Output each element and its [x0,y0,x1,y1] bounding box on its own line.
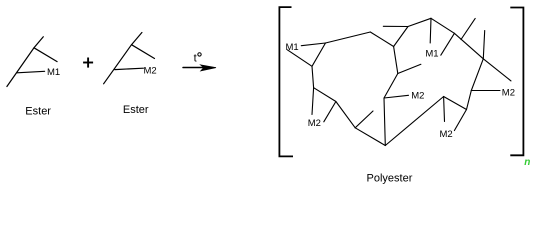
svg-text:Polyester: Polyester [367,173,413,185]
stub J1 down to M2 left [312,88,314,115]
bond Vmid-V5 [394,47,398,74]
bond below M1left to V2 [287,50,312,67]
svg-text:t: t [194,52,197,64]
bond Vb1-J2 [336,102,355,128]
bond V4-V5 [394,27,408,47]
stub into V4 [383,25,408,27]
bond Vb2-J3 vertical [384,98,385,146]
bond J2-J1 [314,88,336,102]
bond V1-V3 top edge [326,32,371,43]
arrow shaft [183,67,204,69]
bond V8-Vg [471,59,483,91]
stub above V8 [483,31,484,59]
stub V7 up right [461,18,475,39]
svg-text:Ester: Ester [123,104,149,116]
left bracket [279,7,293,156]
bond Vc-Vb2 long [385,97,443,146]
ester 2 main chain [104,33,142,84]
ester 1 main chain [7,37,43,87]
svg-text:M1: M1 [425,48,438,59]
svg-text:M2: M2 [440,129,453,140]
right bracket [510,8,523,156]
bond V7-V8 [454,33,483,59]
ester 1 branch to B [34,48,57,62]
svg-text:Ester: Ester [25,106,51,118]
bond Vg-Vh [467,91,472,110]
svg-text:M2: M2 [308,118,321,129]
bond J2 to M2 left [324,102,336,122]
bond M1center to V7 [441,33,455,55]
bond J3-Vmid [384,74,398,99]
bond Vc-Vh [444,97,467,110]
svg-text:M1: M1 [286,42,299,53]
svg-text:M2: M2 [144,65,157,76]
stub V8 to M2 right top [483,59,511,81]
arrow head [201,65,216,71]
stub Vc down to M2 bottom [443,97,446,122]
bond J1-V2 [312,66,314,87]
ester 1 bond to M1 [17,71,45,73]
ester 2 branch [132,45,155,59]
stub Vb1 up right [355,111,373,128]
stub Vmid up right [398,64,421,73]
bond Vb2-Vb1 [355,128,385,146]
bond J3 to M2 center [384,95,409,98]
bond Vh down to M2 bottom [454,110,466,131]
svg-text:M1: M1 [47,67,60,78]
svg-text:M2: M2 [411,90,424,101]
bond Vg to M2 right [471,90,500,92]
bond V3-V5 [370,32,393,47]
bond V6-V7 [431,18,454,33]
bond V4-V6 [408,18,431,26]
plus sign [83,58,93,68]
stub V6 down to M1 center [429,18,432,43]
ester 2 bond to M2 [115,68,144,69]
bond M1left to V1 [301,43,325,46]
svg-text:M2: M2 [502,87,515,98]
bond V1-V2 [312,43,326,66]
svg-text:n: n [524,157,530,168]
